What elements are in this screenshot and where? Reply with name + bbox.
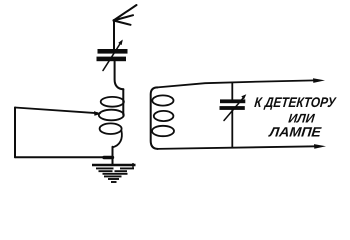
wire antenna to coil <box>115 61 124 89</box>
wire bottom horizontal <box>15 156 113 158</box>
wire capacitor branch bottom <box>231 110 233 147</box>
svg-text:К ДЕТЕКТОРУ: К ДЕТЕКТОРУ <box>254 94 338 110</box>
capacitor C1 <box>97 40 128 71</box>
inductor L2 secondary coil <box>151 87 174 148</box>
svg-text:ИЛИ: ИЛИ <box>288 112 316 126</box>
svg-text:ЛАМПЕ: ЛАМПЕ <box>268 125 323 140</box>
wire top output <box>158 78 326 87</box>
capacitor C2 <box>220 94 247 120</box>
wire left vertical <box>14 108 16 158</box>
ground GND <box>92 163 136 182</box>
wire bottom output <box>158 144 327 149</box>
wire junction blob <box>104 156 113 159</box>
wire capacitor branch top <box>231 83 233 100</box>
inductor L1 primary coil <box>99 89 124 147</box>
tap arrow wire <box>15 108 102 116</box>
antenna W1 <box>114 5 137 49</box>
wire to ground <box>112 147 114 164</box>
